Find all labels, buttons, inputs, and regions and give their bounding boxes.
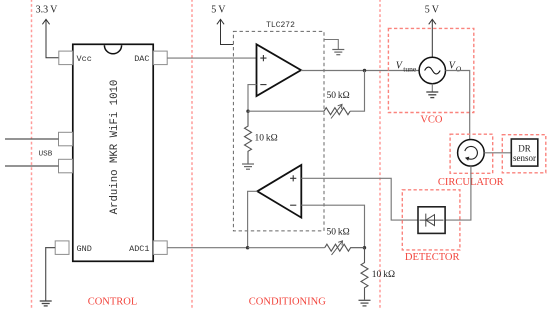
potentiometer 50k (2) arrow: [332, 241, 343, 255]
op-amp U2B (mirrored): [257, 165, 301, 218]
ground (10k 2): [359, 300, 371, 306]
pin ADC1: [153, 241, 167, 255]
svg-text:DAC: DAC: [134, 54, 149, 64]
junction op2 output node: [246, 246, 249, 249]
junction op1 output: [363, 69, 366, 72]
wire op-amp1 output to VCO: [301, 70, 419, 72]
detector diode symbol: [420, 214, 444, 227]
svg-text:DETECTOR: DETECTOR: [405, 252, 460, 263]
TLC272 ground wire: [324, 40, 338, 50]
svg-text:CONDITIONING: CONDITIONING: [249, 296, 326, 307]
VCO ground wire: [431, 84, 433, 92]
svg-text:50 kΩ: 50 kΩ: [327, 91, 350, 101]
TLC272 package dashed box: [233, 31, 324, 231]
ground (VCO): [426, 92, 438, 98]
svg-text:Arduino MKR WiFi 1010: Arduino MKR WiFi 1010: [109, 80, 121, 215]
5V supply arrow (VCO): [429, 19, 436, 57]
circulator arrow: [465, 146, 478, 159]
wire circulator to detector: [445, 166, 471, 220]
svg-text:CONTROL: CONTROL: [88, 296, 138, 307]
DR sensor box: [511, 139, 538, 166]
VCO oscillator circle: [419, 57, 445, 83]
pin Vcc: [59, 51, 73, 65]
svg-text:Vcc: Vcc: [77, 54, 92, 64]
USB pin 1: [59, 132, 73, 146]
wire op2 - input to feedback node: [301, 205, 364, 248]
svg-text:ADC1: ADC1: [129, 244, 149, 254]
svg-text:3.3 V: 3.3 V: [36, 4, 59, 15]
wire junction down to pot1: [350, 71, 364, 112]
svg-text:10 kΩ: 10 kΩ: [255, 134, 278, 144]
USB pin 2: [59, 159, 73, 173]
DR sensor dashed box: [502, 135, 546, 173]
pin DAC: [153, 51, 167, 65]
circulator dashed box: [450, 134, 493, 173]
GND wire: [46, 248, 56, 301]
junction inverting node: [246, 110, 249, 113]
wire feedback bottom left segment: [248, 247, 325, 249]
detector diode box: [418, 207, 445, 234]
wire node to pot1 left: [248, 110, 324, 112]
potentiometer 50k (2) zigzag: [325, 244, 365, 251]
wire op-amp1 inverting input: [248, 85, 257, 112]
USB wire 2: [5, 165, 59, 167]
ground (TLC272): [332, 50, 344, 55]
svg-text:5 V: 5 V: [211, 4, 226, 15]
5V supply arrow (conditioning): [217, 19, 234, 44]
VCO sine symbol: [425, 67, 441, 74]
VCO dashed box: [388, 28, 473, 112]
section divider line 1 (left of CONTROL): [31, 0, 33, 310]
USB wire 1: [5, 138, 59, 140]
junction op2 feedback node: [363, 246, 366, 249]
resistor 10k (2): [361, 248, 368, 300]
IC U1 Arduino MKR WiFi 1010 body: [73, 44, 153, 261]
3.3V supply arrow: [42, 19, 58, 58]
svg-text:5 V: 5 V: [425, 4, 440, 15]
svg-text:GND: GND: [77, 244, 92, 254]
wire VCO out to circulator: [446, 71, 470, 140]
section divider line 2 (CONTROL/CONDITIONING): [191, 0, 193, 310]
pin GND: [55, 241, 69, 255]
svg-text:USB: USB: [39, 151, 53, 159]
section divider line 3 (CONDITIONING/RF): [379, 0, 381, 310]
potentiometer 50k (1) zigzag: [324, 108, 350, 115]
op-amp U2A: [257, 44, 302, 96]
IC notch: [104, 45, 121, 54]
svg-text:50 kΩ: 50 kΩ: [327, 228, 350, 238]
svg-text:O: O: [456, 64, 462, 73]
svg-text:sensor: sensor: [513, 153, 536, 163]
potentiometer 50k (1) arrow: [331, 104, 342, 118]
svg-text:10 kΩ: 10 kΩ: [372, 270, 395, 280]
ground (control): [40, 301, 52, 306]
wire circulator to DR sensor: [484, 152, 511, 154]
detector dashed box: [402, 190, 460, 250]
svg-text:tune: tune: [403, 64, 417, 73]
wire ADC1 to feedback net: [167, 247, 247, 249]
ground (10k 1): [242, 164, 254, 169]
svg-text:TLC272: TLC272: [266, 21, 295, 30]
circulator circle: [458, 140, 485, 167]
resistor 10k (1): [245, 111, 252, 163]
svg-text:DR: DR: [518, 143, 531, 153]
wire op2 + input from detector: [301, 178, 418, 220]
wire op2 output feedback: [248, 191, 258, 247]
wire DAC to op-amp1 +: [167, 57, 256, 59]
svg-text:VCO: VCO: [420, 115, 443, 126]
